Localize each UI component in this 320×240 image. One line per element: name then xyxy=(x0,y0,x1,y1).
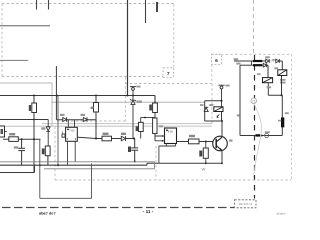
dashed enclosure top-left box xyxy=(2,4,212,84)
dashed vertical top right (light) xyxy=(253,0,255,55)
vertical wire x57 xyxy=(55,66,57,120)
wire row2 corner to relay K2 xyxy=(267,65,268,77)
resistor R37 xyxy=(141,117,155,119)
part number box bottom right xyxy=(235,200,257,208)
diode D2 xyxy=(263,63,267,67)
IC box2 xyxy=(155,125,177,163)
resistor R35 xyxy=(153,118,157,134)
plus supply terminal center xyxy=(130,87,136,96)
wire to K1 bottom xyxy=(268,76,281,96)
svg-text:abattis: abattis xyxy=(277,212,286,216)
resistor R31 xyxy=(9,137,18,142)
svg-text:aba? de?: aba? de? xyxy=(39,211,56,215)
diode D33 xyxy=(121,136,125,141)
svg-text:7-60: 7-60 xyxy=(69,129,75,133)
right circuit: supply row 2 wire xyxy=(240,64,253,66)
svg-text:400 940 13: 400 940 13 xyxy=(238,202,252,206)
svg-text:- 11 -: - 11 - xyxy=(143,209,154,214)
relay coil RL1 xyxy=(209,104,223,118)
faint pencil curve xyxy=(254,104,262,178)
wire box1 to R36 to D33 xyxy=(77,137,134,138)
diode D31 on row xyxy=(63,117,67,121)
box 7 xyxy=(163,68,174,78)
box1 top pins xyxy=(68,120,74,128)
main vertical wire center top xyxy=(127,0,129,96)
diode D3 xyxy=(276,59,280,63)
wire row1 corner to relay K1 xyxy=(279,61,282,70)
resistor R32 chain xyxy=(95,96,97,139)
detour rail bottom xyxy=(40,139,92,198)
emitter wire down xyxy=(221,151,223,164)
right circuit: supply row 1 wire xyxy=(234,60,253,62)
bottom rails xyxy=(0,164,147,166)
gray wire top-left 1 xyxy=(0,25,50,27)
connector box far left xyxy=(0,126,5,137)
node dots on bus xyxy=(33,95,134,97)
IC box1 xyxy=(62,120,77,166)
diode D35 symbol xyxy=(204,107,208,111)
resistor R34 xyxy=(153,103,158,113)
bottom wire right circuit xyxy=(240,135,282,137)
resistor R33 xyxy=(45,146,50,156)
M tick xyxy=(237,114,240,116)
wire below K2 with label xyxy=(267,83,269,96)
box2 left pins xyxy=(155,136,165,141)
diode D30 xyxy=(46,120,50,147)
relay K2 xyxy=(257,73,273,82)
dashed boundary bottom region xyxy=(55,77,292,180)
diode D1 xyxy=(266,59,270,63)
resistor R30 xyxy=(32,103,37,113)
flyback diode D35 loop xyxy=(205,101,222,121)
resistor R11 black bar xyxy=(281,95,283,117)
dashed vertical right edge xyxy=(291,54,293,180)
fuse bar F1 xyxy=(253,60,262,62)
capacitor C33 xyxy=(131,139,138,162)
gray wire top-left 2 xyxy=(0,59,28,61)
gray test circle on heavy dash xyxy=(251,98,257,104)
vertical wire x58 xyxy=(57,96,59,166)
wire R31 row xyxy=(3,138,41,140)
bus corner down to R34 xyxy=(154,96,156,104)
main bus horizontal xyxy=(0,95,155,97)
light gray guide lines mid band xyxy=(0,124,212,127)
box1 left pin block xyxy=(62,134,65,137)
page bottom dashed border xyxy=(2,207,234,209)
capacitor C31 xyxy=(18,139,25,165)
relay feed + terminal xyxy=(218,85,224,107)
svg-text:26: 26 xyxy=(252,99,256,103)
light gray shield outline left xyxy=(0,83,205,126)
labels S18 R1B xyxy=(280,79,286,81)
fuse bar F2 xyxy=(253,64,262,66)
collector wire up xyxy=(221,121,223,137)
resistor R38 xyxy=(189,139,200,144)
svg-text:W: W xyxy=(202,167,206,172)
svg-text:8-60: 8-60 xyxy=(168,130,174,134)
transistor Q1 xyxy=(213,136,228,151)
top connector stubs xyxy=(37,0,146,23)
vertical wire x34 xyxy=(33,96,35,173)
dotted link row 1 xyxy=(271,60,275,62)
relay K1 xyxy=(274,67,286,75)
box1 bottom pins xyxy=(68,141,76,165)
svg-text:6: 6 xyxy=(215,58,218,64)
zener D34 xyxy=(130,96,136,139)
resistor R40 xyxy=(203,148,208,158)
box 6 xyxy=(212,54,292,123)
box2 bottom pins xyxy=(159,144,176,164)
wire box2 to R38 to base xyxy=(177,141,214,143)
svg-text:7: 7 xyxy=(167,71,170,77)
connector blob on wire xyxy=(256,134,261,136)
heavy dashed bus line right xyxy=(254,55,256,199)
wire row y119.5 xyxy=(0,119,96,121)
diode D32 on row xyxy=(83,117,87,121)
resistor R36 xyxy=(102,136,112,141)
